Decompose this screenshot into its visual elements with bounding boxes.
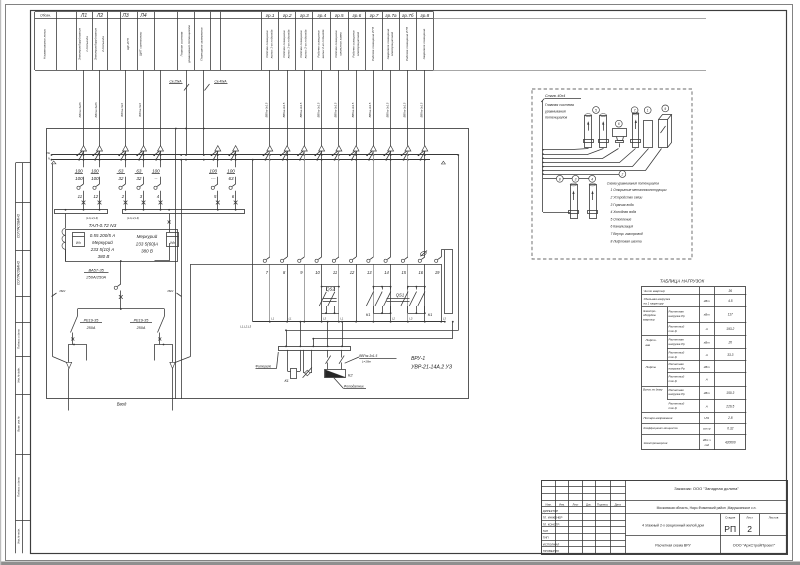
svg-text:4 Холодная вода: 4 Холодная вода bbox=[611, 210, 637, 214]
pipe group 5 (heating) bbox=[593, 107, 600, 114]
svg-text:Число квартир: Число квартир bbox=[644, 289, 666, 293]
svg-text:Удельная нагрузка: Удельная нагрузка bbox=[644, 297, 671, 301]
svg-text:233 5(60)А: 233 5(60)А bbox=[135, 241, 158, 246]
svg-text:Wh: Wh bbox=[170, 241, 175, 245]
wire гр.2 down to group breaker bbox=[287, 151, 289, 257]
svg-text:кВт ч: кВт ч bbox=[703, 438, 711, 442]
group breaker 14 bbox=[387, 257, 390, 259]
svg-text:Подпись и дата: Подпись и дата bbox=[16, 477, 20, 497]
circuit breaker 11 bbox=[83, 177, 85, 184]
meter cabinet box bbox=[66, 230, 178, 262]
svg-text:ЩР-ИТП: ЩР-ИТП bbox=[126, 37, 130, 50]
svg-text:Расчетная: Расчетная bbox=[669, 388, 685, 392]
svg-text:12: 12 bbox=[93, 194, 98, 199]
left margin stamp column bbox=[15, 163, 17, 553]
svg-text:Рабочее освещение: Рабочее освещение bbox=[352, 30, 356, 58]
svg-text:13: 13 bbox=[367, 270, 372, 275]
circuit breaker 12 bbox=[99, 177, 101, 184]
cross mark on wire 5 bbox=[216, 201, 220, 205]
wire wrap to lighting bus 2 bbox=[313, 322, 453, 339]
lower pipe circles 8 3 4 bbox=[556, 175, 563, 182]
svg-text:100: 100 bbox=[91, 168, 99, 173]
disconnector arrow on wire 5 bbox=[215, 146, 221, 151]
svg-text:Лист: Лист bbox=[746, 515, 753, 519]
svg-text:63: 63 bbox=[118, 168, 124, 173]
svg-text:Расчетный: Расчетный bbox=[669, 402, 685, 406]
svg-text:ВВГнг-3х1.5: ВВГнг-3х1.5 bbox=[368, 102, 372, 117]
svg-text:ГЛ. КОНСТР.: ГЛ. КОНСТР. bbox=[543, 522, 560, 526]
bus PE bbox=[52, 154, 459, 156]
svg-text:Коэффициент мощности: Коэффициент мощности bbox=[644, 426, 679, 430]
svg-text:РП: РП bbox=[724, 524, 736, 534]
group breaker 8 bbox=[284, 257, 287, 259]
lighting bus bar bbox=[279, 347, 351, 351]
svg-text:Лифто-: Лифто- bbox=[645, 338, 657, 342]
svg-text:квартир: квартир bbox=[643, 318, 655, 322]
disconnector arrow гр.1 bbox=[267, 146, 273, 151]
svg-text:ЩИТ сантехники: ЩИТ сантехники bbox=[139, 32, 143, 57]
svg-text:школьного замка: школьного замка bbox=[338, 32, 342, 56]
svg-text:250А: 250А bbox=[86, 326, 96, 330]
svg-text:ВВГнг-5х4: ВВГнг-5х4 bbox=[120, 103, 124, 117]
collector bar 1 bbox=[55, 210, 108, 214]
svg-text:100: 100 bbox=[209, 168, 217, 173]
svg-text:Расчетный: Расчетный bbox=[669, 324, 685, 328]
disconnector arrow гр.2 bbox=[284, 146, 290, 151]
svg-text:ГИП: ГИП bbox=[543, 536, 549, 540]
svg-text:Рабочее освещение: Рабочее освещение bbox=[299, 30, 303, 58]
svg-text:ВВГнг-5х25: ВВГнг-5х25 bbox=[94, 102, 98, 117]
wire line гр.7 from table bbox=[373, 70, 375, 146]
svg-text:оборудов.: оборудов. bbox=[643, 313, 657, 317]
wire гр.8 down to group breaker bbox=[390, 151, 392, 257]
wire 12 bus to breaker bbox=[99, 151, 101, 167]
svg-text:ВВГнг-3х1.5: ВВГнг-3х1.5 bbox=[265, 102, 269, 117]
wire riser ground system bbox=[186, 70, 188, 155]
svg-text:4 этажный 2-х секционный жилой: 4 этажный 2-х секционный жилой дом bbox=[642, 524, 704, 528]
svg-text:кВт: кВт bbox=[704, 365, 710, 369]
wire line гр.6 from table bbox=[356, 70, 358, 146]
svg-text:Главная система: Главная система bbox=[545, 103, 574, 107]
svg-text:Московская область, Наро-Фоми: Московская область, Наро-Фоминский район… bbox=[657, 506, 757, 510]
svg-text:Л4: Л4 bbox=[139, 13, 146, 19]
svg-text:Повторное заземление: Повторное заземление bbox=[200, 27, 204, 61]
device circle 2 on line bbox=[543, 174, 619, 176]
svg-text:СОГЛАСОВАНО: СОГЛАСОВАНО bbox=[16, 213, 20, 238]
svg-text:ГАП: ГАП bbox=[543, 529, 548, 533]
svg-text:гр.5: гр.5 bbox=[335, 13, 344, 18]
svg-text:16: 16 bbox=[418, 270, 423, 275]
svg-text:250А/250А: 250А/250А bbox=[85, 274, 106, 279]
svg-text:нагрузка Рр: нагрузка Рр bbox=[669, 342, 686, 346]
svg-text:Меркурий: Меркурий bbox=[137, 233, 158, 239]
svg-text:100: 100 bbox=[227, 168, 235, 173]
svg-text:cos φ: cos φ bbox=[703, 427, 711, 431]
svg-text:U%: U% bbox=[704, 416, 709, 420]
svg-text:Фотодатчик: Фотодатчик bbox=[344, 385, 364, 389]
group breaker 9 bbox=[301, 257, 304, 259]
title block bbox=[542, 481, 788, 555]
svg-text:ВВГнг-3х1.5: ВВГнг-3х1.5 bbox=[334, 102, 338, 117]
svg-text:нагрузка Рр: нагрузка Рр bbox=[669, 366, 686, 370]
feeder designation table bbox=[35, 11, 433, 13]
svg-text:QS2: QS2 bbox=[326, 287, 335, 292]
svg-text:N: N bbox=[48, 157, 50, 161]
svg-text:150.3: 150.3 bbox=[726, 391, 734, 395]
group breaker 11 bbox=[336, 257, 339, 259]
svg-text:ВВГнг-3х1.5: ВВГнг-3х1.5 bbox=[282, 102, 286, 117]
wire 2 bus to breaker bbox=[125, 151, 127, 167]
svg-text:420000: 420000 bbox=[725, 441, 736, 445]
svg-text:32: 32 bbox=[136, 176, 142, 181]
svg-text:2.8: 2.8 bbox=[727, 416, 733, 420]
svg-text:Электроэнергия: Электроэнергия bbox=[644, 441, 668, 445]
wire line 4 from table bbox=[160, 70, 162, 146]
svg-text:PEN: PEN bbox=[60, 289, 67, 293]
svg-text:жилых 1-го подъезда: жилых 1-го подъезда bbox=[286, 29, 290, 59]
circuit breaker 2 bbox=[125, 177, 127, 184]
svg-text:2: 2 bbox=[747, 524, 752, 534]
breaker ticks above K2 bbox=[326, 356, 331, 364]
wire гр.5 down to group breaker bbox=[338, 151, 340, 257]
svg-text:Рабочее освещение: Рабочее освещение bbox=[265, 30, 269, 58]
pipe 1 (open metal constructions) bbox=[644, 107, 651, 114]
wire line гр.2 from table bbox=[287, 70, 289, 146]
svg-text:32: 32 bbox=[118, 176, 124, 181]
equalisation collector node bbox=[542, 101, 544, 213]
input clamp 2 bbox=[155, 345, 173, 361]
disconnector arrow гр.4 bbox=[319, 146, 325, 151]
disconnector arrow on wire 11 bbox=[81, 146, 87, 151]
svg-text:380 В: 380 В bbox=[98, 254, 110, 259]
svg-text:год: год bbox=[704, 443, 709, 447]
photo sensor bbox=[303, 350, 305, 373]
meter Wh 2 bbox=[167, 233, 179, 247]
svg-text:ВВГнг-3х1.5: ВВГнг-3х1.5 bbox=[359, 354, 377, 358]
svg-text:L=18м: L=18м bbox=[362, 360, 371, 364]
riser to lower bus bbox=[252, 160, 254, 322]
svg-text:QS1: QS1 bbox=[396, 293, 404, 298]
svg-text:Расчетная: Расчетная bbox=[669, 362, 685, 366]
wire line гр.8 from table bbox=[390, 70, 392, 146]
svg-text:гр.7а: гр.7а bbox=[385, 13, 397, 18]
svg-text:Рабочее освещение ИТП: Рабочее освещение ИТП bbox=[405, 26, 409, 61]
group breaker 15 bbox=[405, 257, 408, 259]
svg-text:гр.6: гр.6 bbox=[352, 13, 361, 18]
svg-text:7 Внутр. газопровод: 7 Внутр. газопровод bbox=[611, 232, 643, 236]
svg-text:11: 11 bbox=[78, 194, 83, 199]
pipe 9 (lift shaft) bbox=[662, 105, 669, 112]
svg-text:Расчетный: Расчетный bbox=[669, 374, 685, 378]
main breaker ВА57-35 bbox=[120, 281, 122, 284]
svg-text:А: А bbox=[705, 327, 708, 331]
svg-text:Расчетная: Расчетная bbox=[669, 338, 685, 342]
svg-text:ДИРЕКТОР: ДИРЕКТОР bbox=[543, 509, 558, 513]
lower pipes (water) bbox=[571, 185, 578, 219]
svg-text:Взам. инв.№: Взам. инв.№ bbox=[16, 416, 20, 432]
svg-text:гр.7б: гр.7б bbox=[402, 13, 414, 18]
svg-text:14: 14 bbox=[384, 270, 389, 275]
wire bar2 to meter2 bbox=[169, 214, 171, 233]
ground symbol near bus right end bbox=[441, 161, 445, 164]
svg-text:---: --- bbox=[211, 176, 216, 181]
photo relay K2 bbox=[325, 370, 346, 378]
svg-text:(L1,L2,L3): (L1,L2,L3) bbox=[127, 216, 139, 220]
svg-text:на 1 квартиру: на 1 квартиру bbox=[644, 301, 665, 305]
svg-text:ВВГнг-5х4: ВВГнг-5х4 bbox=[138, 103, 142, 117]
svg-text:А: А bbox=[705, 377, 708, 381]
svg-text:Электрооборудование: Электрооборудование bbox=[77, 28, 81, 61]
riser wire right side bbox=[458, 155, 460, 330]
svg-text:Стадия: Стадия bbox=[725, 515, 736, 519]
fuse symbol on wire 16 bbox=[420, 251, 427, 257]
svg-text:СОГЛАСОВАНО: СОГЛАСОВАНО bbox=[16, 260, 20, 285]
svg-text:Фотореле: Фотореле bbox=[256, 364, 272, 368]
svg-text:гр.1: гр.1 bbox=[266, 13, 275, 18]
svg-text:Главная система: Главная система bbox=[180, 31, 184, 56]
wire гр.8 to lower bus bbox=[390, 264, 392, 322]
svg-text:3: 3 bbox=[575, 177, 577, 181]
circuit breaker 4 bbox=[160, 177, 162, 184]
wire 4 bus to breaker bbox=[160, 151, 162, 167]
incoming feeder arrow 1 bbox=[66, 362, 71, 368]
svg-text:100: 100 bbox=[152, 168, 160, 173]
disconnector arrow гр.3 bbox=[301, 146, 307, 151]
svg-text:вая: вая bbox=[646, 343, 651, 347]
svg-text:нагрузка Рр: нагрузка Рр bbox=[669, 392, 686, 396]
disconnector arrow on wire 12 bbox=[97, 146, 103, 151]
svg-text:К2: К2 bbox=[348, 373, 353, 378]
switch QS2 bbox=[321, 286, 323, 288]
svg-text:226.5: 226.5 bbox=[725, 404, 734, 408]
disconnector arrow гр.10 bbox=[422, 146, 428, 151]
svg-text:кВт: кВт bbox=[704, 313, 710, 317]
svg-text:К1: К1 bbox=[284, 379, 288, 383]
svg-text:Листов: Листов bbox=[769, 515, 779, 519]
group breaker 16 bbox=[421, 257, 424, 259]
wire гр.4 down to group breaker bbox=[321, 151, 323, 257]
svg-text:Рабочее освещение ИТП: Рабочее освещение ИТП bbox=[371, 26, 375, 61]
svg-text:Лифты: Лифты bbox=[645, 365, 657, 369]
wire line гр.5 from table bbox=[338, 70, 340, 146]
svg-text:Св.40кА: Св.40кА bbox=[214, 80, 226, 84]
circuit breaker 5 bbox=[217, 177, 219, 184]
svg-text:117: 117 bbox=[728, 313, 733, 317]
wire гр.3 to lower bus bbox=[304, 264, 306, 322]
svg-text:3 Горячая вода: 3 Горячая вода bbox=[611, 203, 634, 207]
PEN conductor left bbox=[52, 164, 54, 357]
svg-text:Ввод: Ввод bbox=[117, 402, 127, 407]
bus N bbox=[52, 159, 431, 161]
svg-text:ТАЛ-0.72 N3: ТАЛ-0.72 N3 bbox=[89, 223, 117, 229]
wire 3 bus to breaker bbox=[143, 151, 145, 167]
disconnector arrow гр.9 bbox=[405, 146, 411, 151]
svg-text:4.5: 4.5 bbox=[728, 299, 733, 303]
svg-text:ток Iр: ток Iр bbox=[669, 329, 678, 333]
pipe 7 (gas) bbox=[631, 107, 638, 114]
lower distribution bus bbox=[253, 321, 445, 323]
svg-text:жилых 2-го подъезда: жилых 2-го подъезда bbox=[304, 29, 308, 59]
svg-text:Аварийное освещение: Аварийное освещение bbox=[386, 28, 390, 60]
svg-text:А: А bbox=[705, 353, 708, 357]
wire гр.10 to lower bus bbox=[424, 264, 426, 322]
wire гр.4 to lower bus bbox=[321, 264, 323, 322]
svg-text:19: 19 bbox=[435, 270, 440, 275]
group breaker 13 bbox=[370, 257, 373, 259]
svg-text:PE: PE bbox=[46, 151, 50, 155]
wire line гр.10 from table bbox=[424, 70, 426, 146]
svg-text:гр.2: гр.2 bbox=[283, 13, 292, 18]
svg-text:63: 63 bbox=[136, 168, 142, 173]
PEN conductor right bbox=[190, 264, 192, 357]
svg-text:УВР-21-14А.2 УЗ: УВР-21-14А.2 УЗ bbox=[411, 365, 453, 371]
svg-text:2 Устройство связи: 2 Устройство связи bbox=[610, 196, 643, 200]
svg-text:--: -- bbox=[154, 176, 158, 181]
current transformer bumps bbox=[65, 214, 67, 229]
svg-text:Аварийное освещение: Аварийное освещение bbox=[422, 28, 426, 60]
svg-text:ВРУ-1: ВРУ-1 bbox=[411, 356, 425, 362]
svg-text:Док.: Док. bbox=[586, 502, 592, 506]
svg-text:1: 1 bbox=[647, 109, 649, 113]
disconnector arrow on wire 2 bbox=[123, 146, 129, 151]
cross mark on wire 11 bbox=[82, 201, 86, 205]
wire line 2 from table bbox=[125, 70, 127, 146]
svg-text:100: 100 bbox=[75, 168, 83, 173]
disconnector arrow гр.8 bbox=[388, 146, 394, 151]
wire line гр.3 from table bbox=[304, 70, 306, 146]
svg-text:кВт: кВт bbox=[704, 299, 710, 303]
svg-text:ВВГнг-3х1.5: ВВГнг-3х1.5 bbox=[420, 102, 424, 117]
svg-text:ВВГнг-3х1.5: ВВГнг-3х1.5 bbox=[351, 102, 355, 117]
disconnector arrow on wire 4 bbox=[158, 146, 164, 151]
svg-text:ТАБЛИЦА НАГРУЗОК: ТАБЛИЦА НАГРУЗОК bbox=[660, 278, 705, 283]
svg-text:уравнивания потенциалов: уравнивания потенциалов bbox=[187, 25, 191, 64]
svg-text:гр.3: гр.3 bbox=[300, 13, 309, 18]
svg-text:ток Iр: ток Iр bbox=[669, 355, 678, 359]
cross mark on wire 4 bbox=[159, 201, 163, 205]
load table bbox=[642, 287, 746, 450]
wire line 19 bbox=[441, 250, 443, 257]
svg-text:5 Отопление: 5 Отопление bbox=[611, 217, 632, 221]
svg-text:Расчетная: Расчетная bbox=[669, 310, 685, 314]
svg-text:Л3: Л3 bbox=[121, 13, 128, 19]
wire line 12 from table bbox=[99, 70, 101, 146]
svg-text:электрощитовой: электрощитовой bbox=[356, 31, 360, 56]
svg-text:250А: 250А bbox=[136, 326, 146, 330]
svg-text:Наименование линии: Наименование линии bbox=[43, 29, 47, 59]
svg-text:100: 100 bbox=[91, 176, 99, 181]
mechanical coupling QS1 bbox=[387, 298, 410, 300]
meter Wh 1 bbox=[73, 233, 85, 247]
svg-text:жилых 2-го подъезда: жилых 2-го подъезда bbox=[321, 29, 325, 59]
switch QS1 bbox=[373, 286, 375, 288]
wire 11 bus to breaker bbox=[83, 151, 85, 167]
wire гр.3 down to group breaker bbox=[304, 151, 306, 257]
wire гр.1 down to group breaker bbox=[269, 151, 271, 257]
ВРУ enclosure outline bbox=[47, 129, 469, 399]
svg-text:1 Открытые металлоконструкции: 1 Открытые металлоконструкции bbox=[611, 188, 667, 192]
disconnector arrow гр.5 bbox=[336, 146, 342, 151]
wire гр.6 down to group breaker bbox=[356, 151, 358, 257]
svg-text:Дата: Дата bbox=[615, 502, 622, 506]
tap wires to lighting bar bbox=[286, 330, 288, 346]
svg-text:Расчетная схема ВРУ: Расчетная схема ВРУ bbox=[655, 544, 691, 548]
disconnector arrow on wire 3 bbox=[141, 146, 147, 151]
svg-text:Обозн.: Обозн. bbox=[40, 14, 51, 18]
cross marks at inputs bbox=[71, 338, 74, 341]
svg-text:Изм.: Изм. bbox=[559, 502, 565, 506]
svg-text:Инв.№ подл.: Инв.№ подл. bbox=[16, 528, 20, 544]
split to changeover switches bbox=[78, 308, 165, 310]
switch РЕ19-35 input 1 bbox=[71, 316, 78, 333]
svg-text:Заказчик: ООО "Западная долина: Заказчик: ООО "Западная долина" bbox=[674, 486, 739, 491]
svg-text:К1: К1 bbox=[428, 312, 433, 317]
svg-text:20: 20 bbox=[728, 340, 733, 344]
svg-text:Подпись и дата: Подпись и дата bbox=[16, 329, 20, 349]
PEN conductor risers bbox=[175, 129, 177, 400]
svg-text:Wh: Wh bbox=[76, 241, 81, 245]
svg-text:ВВГнг-3х1.5: ВВГнг-3х1.5 bbox=[299, 102, 303, 117]
svg-text:уравнивания: уравнивания bbox=[544, 109, 566, 113]
svg-text:Лист: Лист bbox=[572, 502, 579, 506]
svg-text:гр.8: гр.8 bbox=[420, 13, 429, 18]
wire line гр.9 from table bbox=[407, 70, 409, 146]
svg-text:ток Iр: ток Iр bbox=[669, 379, 678, 383]
switch РЕ19-35 input 2 bbox=[158, 316, 165, 333]
svg-text:электрощитовой: электрощитовой bbox=[390, 31, 394, 56]
svg-text:33.3: 33.3 bbox=[727, 353, 733, 357]
group breaker 10 bbox=[318, 257, 321, 259]
svg-text:РЕ19-35: РЕ19-35 bbox=[84, 319, 100, 323]
svg-text:63: 63 bbox=[228, 176, 234, 181]
svg-text:0.55 200/5 А: 0.55 200/5 А bbox=[90, 233, 116, 238]
wire line гр.4 from table bbox=[321, 70, 323, 146]
svg-text:Л1: Л1 bbox=[80, 13, 87, 19]
svg-text:12: 12 bbox=[350, 270, 355, 275]
svg-text:11: 11 bbox=[333, 270, 337, 275]
svg-text:Св.25кА: Св.25кА bbox=[169, 80, 181, 84]
svg-text:193.2: 193.2 bbox=[726, 327, 734, 331]
potential equalisation dashed box bbox=[532, 89, 692, 259]
svg-text:ВВГнг-5х25: ВВГнг-5х25 bbox=[78, 102, 82, 117]
wire гр.1 to lower bus bbox=[269, 264, 271, 322]
svg-text:Электро-: Электро- bbox=[643, 309, 656, 313]
svg-text:Электрооборудование: Электрооборудование bbox=[93, 28, 97, 61]
svg-text:8 Лифтовая шахта: 8 Лифтовая шахта bbox=[611, 239, 642, 243]
svg-text:ВА57-35: ВА57-35 bbox=[88, 267, 104, 272]
wire гр.9 to lower bus bbox=[407, 264, 409, 322]
svg-text:15: 15 bbox=[402, 270, 407, 275]
cross mark on wire 3 bbox=[142, 201, 146, 205]
disconnector arrow гр.7 bbox=[370, 146, 376, 151]
ground symbol at bus left bbox=[52, 161, 57, 164]
svg-text:2 подъезда: 2 подъезда bbox=[101, 36, 105, 53]
svg-text:нагрузка Рр: нагрузка Рр bbox=[669, 314, 686, 318]
svg-text:Инв.№ дубл.: Инв.№ дубл. bbox=[16, 367, 20, 383]
wire line гр.1 from table bbox=[269, 70, 271, 146]
svg-text:Схема уравнивания потенциалов: Схема уравнивания потенциалов bbox=[607, 182, 660, 186]
svg-text:потенциалов: потенциалов bbox=[545, 116, 567, 120]
svg-text:ВВГнг-3х1.5: ВВГнг-3х1.5 bbox=[385, 102, 389, 117]
group breaker 7 bbox=[266, 257, 269, 259]
svg-text:гр.4: гр.4 bbox=[317, 13, 326, 18]
contactor coil K1 bbox=[287, 350, 289, 371]
main breaker ВА57-35 wire bbox=[120, 260, 122, 262]
svg-text:36: 36 bbox=[729, 289, 733, 293]
svg-text:6 Канализация: 6 Канализация bbox=[611, 225, 634, 229]
svg-text:ГЛ. ИНЖЕНЕР: ГЛ. ИНЖЕНЕР bbox=[543, 516, 563, 520]
svg-text:ПРОВЕРИЛ: ПРОВЕРИЛ bbox=[543, 549, 559, 553]
